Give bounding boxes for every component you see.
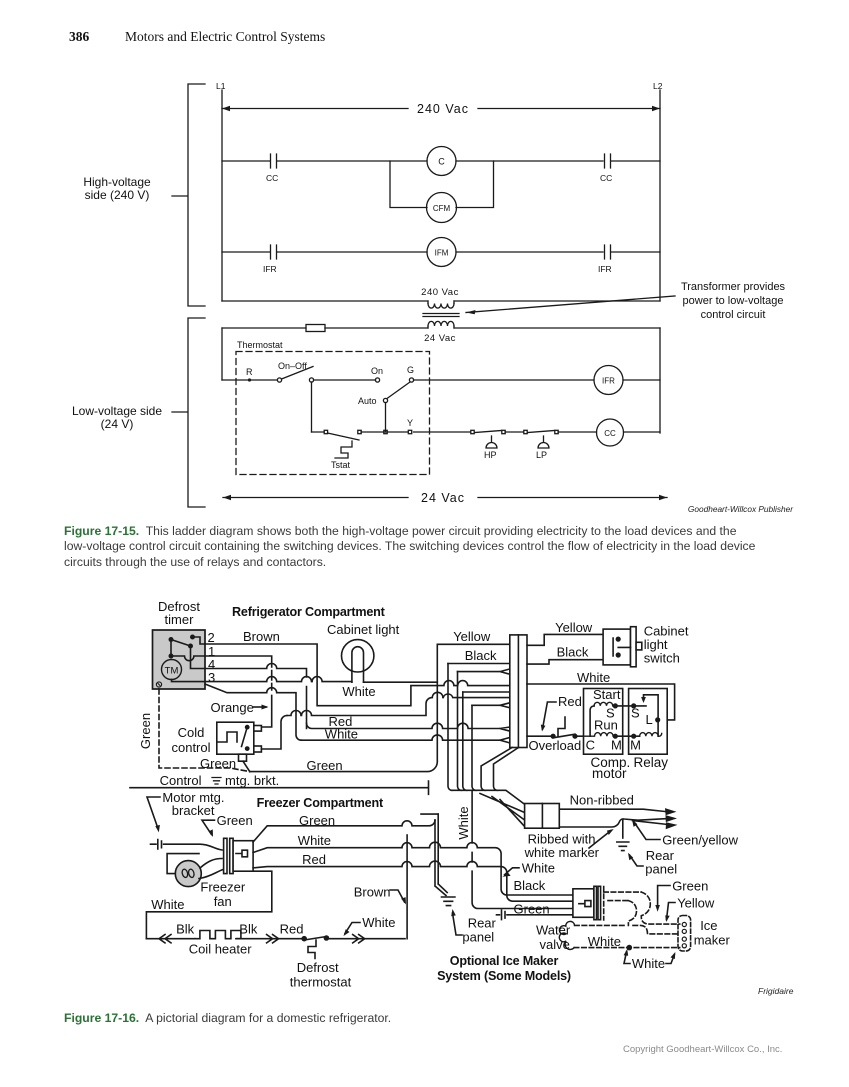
wire cold control bottom up [261, 716, 287, 750]
svg-text:24 Vac: 24 Vac [421, 491, 465, 505]
receptacle dashed [604, 887, 642, 921]
wire green cold control to right [250, 761, 438, 771]
svg-text:white marker: white marker [524, 845, 600, 860]
svg-text:High-voltage: High-voltage [83, 175, 151, 189]
svg-text:Green: Green [200, 756, 236, 771]
svg-text:Freezer Compartment: Freezer Compartment [257, 796, 384, 810]
freezer fan motor [175, 861, 201, 887]
svg-text:panel: panel [645, 862, 677, 877]
svg-text:side (240 V): side (240 V) [85, 188, 150, 202]
svg-text:Freezer: Freezer [200, 880, 245, 895]
cord conductor arrows [665, 808, 678, 829]
svg-text:Relay: Relay [634, 755, 669, 770]
svg-text:L1: L1 [216, 81, 226, 91]
annotation leader transformer [466, 296, 675, 313]
svg-text:Coil heater: Coil heater [189, 942, 253, 957]
Frigidaire credit [758, 986, 793, 996]
rail L1 [221, 90, 223, 301]
timer motor TM [162, 660, 182, 680]
svg-text:valve: valve [540, 937, 570, 952]
contactor coil C [427, 147, 456, 176]
svg-text:control circuit: control circuit [701, 309, 766, 321]
svg-text:Low-voltage side: Low-voltage side [72, 404, 162, 418]
timer contact dots [169, 637, 174, 642]
wire black right [527, 660, 603, 664]
vertical V4 [463, 692, 467, 790]
page header [69, 29, 89, 45]
wire cold control riser [287, 692, 510, 715]
power cord wires [559, 809, 666, 827]
wire timer corner diagonal [205, 684, 301, 740]
svg-text:240 Vac: 240 Vac [417, 102, 469, 116]
svg-text:fan: fan [214, 894, 232, 909]
svg-text:Optional Ice Maker: Optional Ice Maker [450, 954, 559, 968]
svg-text:IFR: IFR [598, 264, 612, 274]
rear panel ground right [617, 842, 629, 851]
svg-text:Brown: Brown [354, 885, 391, 900]
dashed wire white bottom [574, 947, 680, 949]
svg-text:White: White [325, 727, 358, 742]
bracket low-voltage side [172, 318, 205, 507]
wire strain marks mid [267, 935, 279, 943]
switch Tstat [324, 430, 327, 433]
svg-text:White: White [342, 684, 375, 699]
wire 4 [205, 664, 307, 729]
svg-text:Transformer provides: Transformer provides [681, 281, 786, 293]
timer internal wires [171, 637, 205, 656]
svg-text:CC: CC [600, 173, 612, 183]
cold control bellows [217, 732, 237, 742]
svg-text:HP: HP [484, 450, 497, 460]
rear panel ground left [442, 897, 455, 906]
overload switch [551, 734, 556, 739]
comp motor box [584, 689, 623, 755]
svg-text:L2: L2 [653, 81, 663, 91]
rung 1 wire [222, 160, 660, 162]
wire Auto to Y line [385, 403, 387, 433]
wire entry 692 [463, 691, 510, 693]
terminal R [248, 378, 251, 381]
svg-text:White: White [362, 915, 395, 930]
svg-text:Red: Red [302, 852, 326, 867]
wire pair verticals to rear panel ground [435, 814, 447, 895]
dimension arrow 240 Vac [222, 108, 660, 110]
bottom wire to transformer primary [222, 300, 660, 302]
svg-text:Orange: Orange [211, 700, 254, 715]
svg-text:R: R [246, 367, 253, 377]
svg-text:CC: CC [266, 173, 278, 183]
coil heater element [195, 931, 241, 939]
collector wire to cord [452, 790, 525, 804]
svg-text:IFR: IFR [263, 264, 277, 274]
transformer T1 [428, 301, 454, 304]
wire entry 671.6 [458, 669, 510, 674]
figure 17-16 caption [64, 1011, 391, 1026]
svg-text:thermostat: thermostat [290, 975, 352, 990]
svg-text:Green: Green [307, 758, 343, 773]
relay coil [640, 733, 662, 737]
svg-text:Green: Green [672, 879, 708, 894]
contactor coil CC [597, 419, 624, 446]
contact IFR right [605, 245, 611, 259]
svg-text:White: White [456, 806, 471, 839]
branch wires to CFM [390, 161, 494, 208]
wire freezer white loop [146, 871, 271, 939]
wires motor to connector [199, 859, 223, 879]
svg-text:Green: Green [138, 713, 153, 749]
vertical V3 [458, 672, 462, 791]
defrost thermostat switch [301, 936, 307, 942]
svg-text:Red: Red [558, 694, 582, 709]
terminal On [375, 378, 379, 382]
timer screw [156, 682, 161, 687]
wire strain marks left [159, 935, 171, 943]
ice maker plug [573, 889, 594, 918]
svg-text:Thermostat: Thermostat [237, 340, 283, 350]
svg-text:Green: Green [217, 813, 253, 828]
svg-text:White: White [151, 897, 184, 912]
wire brown [205, 644, 510, 706]
vertical V5 [472, 705, 573, 908]
copyright footer [623, 1044, 782, 1055]
indoor fan motor IFM [427, 238, 456, 267]
svg-text:Red: Red [280, 922, 304, 937]
svg-text:G: G [407, 365, 414, 375]
svg-text:control: control [171, 740, 210, 755]
svg-text:switch: switch [644, 651, 680, 666]
compartment separator line [130, 781, 429, 794]
vertical junction wire V1 [436, 644, 438, 761]
power cord strain relief [525, 804, 560, 829]
svg-text:Water: Water [536, 923, 571, 938]
wire start to relay S [615, 705, 646, 707]
wire entry 705.3 [472, 703, 510, 708]
switch HP [471, 430, 474, 433]
low-voltage left rail [221, 328, 223, 380]
wire R line [222, 379, 660, 381]
svg-text:Cold: Cold [178, 725, 205, 740]
cold control bottom tab [239, 754, 247, 761]
svg-text:S: S [631, 706, 640, 721]
svg-text:Black: Black [557, 645, 589, 660]
wire black left [448, 663, 510, 665]
bracket high-voltage side [172, 84, 205, 306]
svg-text:Black: Black [514, 878, 546, 893]
svg-text:Run: Run [594, 718, 618, 733]
cabinet light lamp [342, 640, 374, 672]
svg-text:IFR: IFR [602, 377, 615, 386]
svg-text:White: White [298, 833, 331, 848]
svg-text:Y: Y [407, 418, 413, 428]
svg-text:Refrigerator Compartment: Refrigerator Compartment [232, 605, 386, 619]
cold control box [217, 722, 254, 754]
wire yellow top [437, 643, 510, 645]
thermostat dashed box [236, 352, 430, 475]
svg-text:White: White [577, 670, 610, 685]
wire On-Off junction down [311, 382, 313, 432]
svg-text:Auto: Auto [358, 396, 377, 406]
Tstat line wire [312, 431, 661, 433]
svg-text:Blk: Blk [176, 922, 195, 937]
svg-text:Green/yellow: Green/yellow [662, 833, 738, 848]
svg-text:Yellow: Yellow [453, 629, 491, 644]
dashed wire to ice maker lower [633, 925, 680, 934]
svg-text:Start: Start [593, 687, 621, 702]
svg-text:Green: Green [514, 902, 550, 917]
svg-text:CC: CC [604, 429, 616, 438]
defrost timer box TM [153, 630, 206, 689]
switch LP [524, 430, 527, 433]
svg-text:bracket: bracket [172, 803, 215, 818]
contact CC left [271, 154, 277, 168]
svg-text:Rear: Rear [468, 916, 497, 931]
svg-text:On–Off: On–Off [278, 361, 307, 371]
svg-text:24 Vac: 24 Vac [424, 333, 456, 344]
bottom heater wire [146, 938, 405, 940]
svg-text:2: 2 [208, 630, 215, 645]
vertical V2 [448, 664, 452, 791]
cabinet light switch box [603, 629, 630, 665]
freezer connector body [233, 841, 253, 872]
contact CC right [605, 154, 611, 168]
svg-text:3: 3 [208, 670, 215, 685]
svg-text:L: L [646, 712, 653, 727]
wire run to relay M [615, 735, 639, 737]
svg-text:C: C [586, 738, 595, 753]
publisher credit [688, 504, 793, 514]
svg-text:Defrost: Defrost [297, 960, 339, 975]
cold control terminals [254, 726, 262, 732]
svg-text:power to low-voltage: power to low-voltage [683, 295, 784, 307]
switch Auto blade [387, 382, 410, 399]
svg-text:CFM: CFM [433, 204, 451, 213]
svg-text:240 Vac: 240 Vac [421, 287, 459, 298]
wire red overload [527, 735, 553, 737]
dashed wire white valve top [575, 924, 624, 926]
svg-text:(24 V): (24 V) [101, 417, 134, 431]
dashed wire black hook 2 [641, 892, 679, 924]
wire white lamp [364, 681, 438, 683]
water valve coil [559, 921, 574, 949]
svg-text:Ice: Ice [700, 918, 717, 933]
rail L2 [659, 90, 661, 301]
condenser fan motor CFM [427, 193, 457, 223]
relay box [629, 689, 668, 755]
wire strain marks right [353, 935, 365, 943]
svg-text:panel: panel [462, 930, 494, 945]
contact IFR left [271, 245, 277, 259]
svg-text:White: White [588, 934, 621, 949]
svg-text:Yellow: Yellow [555, 620, 593, 635]
svg-text:System (Some Models): System (Some Models) [437, 969, 571, 983]
svg-text:On: On [371, 366, 383, 376]
svg-text:Cabinet light: Cabinet light [327, 622, 400, 637]
svg-text:White: White [632, 956, 665, 971]
svg-text:White: White [522, 861, 555, 876]
fuse F1 [306, 325, 325, 332]
svg-text:timer: timer [165, 612, 195, 627]
svg-text:Tstat: Tstat [331, 460, 351, 470]
wire 3 [205, 677, 352, 682]
wire yellow right [527, 634, 603, 645]
svg-text:M: M [611, 738, 622, 753]
figure 17-15 caption [64, 524, 755, 570]
svg-text:TM: TM [165, 666, 179, 677]
Tstat thermal element [335, 441, 352, 458]
wire motor loop left [167, 854, 199, 874]
junction dot white [627, 945, 633, 951]
freezer connector plug bars [224, 838, 227, 873]
motor mounting bracket ground [151, 840, 162, 850]
svg-text:C: C [438, 157, 445, 167]
dashed wire black hook 1 [628, 901, 636, 926]
svg-text:motor: motor [592, 766, 627, 781]
wire white to relay [527, 684, 675, 720]
svg-text:Control: Control [160, 773, 202, 788]
green ground wire to plug [497, 910, 573, 920]
svg-text:LP: LP [536, 450, 547, 460]
bus bottom exit wires [481, 748, 518, 791]
terminal G [409, 378, 413, 382]
switch On-Off [277, 378, 281, 382]
ice maker dashed box [678, 916, 691, 952]
relay armature arrow [644, 695, 659, 736]
svg-text:Non-ribbed: Non-ribbed [570, 793, 634, 808]
dimension arrow 24 Vac bottom [223, 497, 667, 499]
junction Auto-Y [384, 430, 387, 433]
svg-text:Overload: Overload [529, 738, 582, 753]
svg-text:M: M [630, 738, 641, 753]
svg-text:Yellow: Yellow [677, 896, 715, 911]
low-voltage top wire with fuse [222, 327, 660, 329]
relay coil IFR [594, 366, 623, 395]
wire 1 to orange [205, 656, 272, 727]
svg-text:Black: Black [465, 648, 497, 663]
wire overload to comp [575, 735, 595, 737]
terminal Y [408, 430, 411, 433]
rung 2 wire [222, 251, 660, 253]
wire brown freezer vertical [406, 835, 408, 939]
cold control switch [245, 725, 250, 730]
svg-text:Brown: Brown [243, 629, 280, 644]
harness bus [510, 635, 527, 748]
dashed green wire from timer [159, 689, 250, 772]
svg-text:Blk: Blk [239, 922, 258, 937]
svg-text:mtg. brkt.: mtg. brkt. [225, 773, 279, 788]
low-voltage right rail [659, 328, 661, 433]
wire bracket to connector [164, 844, 222, 850]
svg-text:IFM: IFM [435, 249, 449, 258]
svg-text:maker: maker [694, 933, 731, 948]
